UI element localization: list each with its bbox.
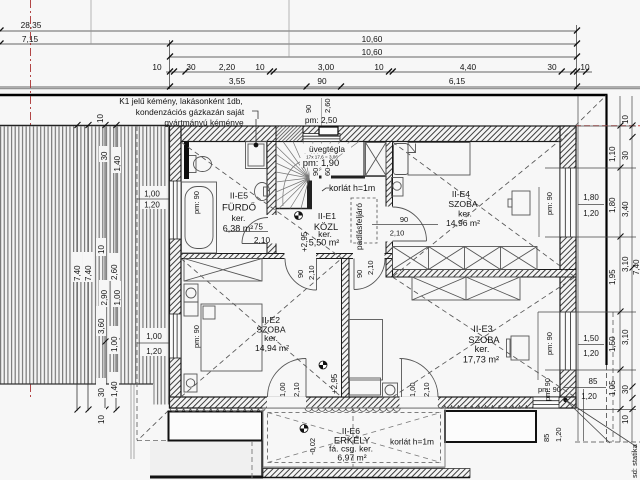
svg-text:1,50: 1,50 [608, 336, 617, 352]
svg-text:90: 90 [296, 270, 305, 278]
svg-text:3,40: 3,40 [621, 201, 630, 217]
svg-text:pm: 90: pm: 90 [543, 378, 552, 401]
svg-text:II-E4: II-E4 [452, 189, 470, 199]
svg-text:2,60: 2,60 [110, 264, 119, 280]
svg-text:6,38 m²: 6,38 m² [223, 224, 254, 234]
svg-text:K1 jelű kémény, lakásonként 1d: K1 jelű kémény, lakásonként 1db, [119, 96, 242, 106]
svg-text:3,10: 3,10 [621, 329, 630, 345]
svg-text:6,97 m²: 6,97 m² [337, 453, 366, 463]
svg-text:7,40: 7,40 [632, 259, 640, 275]
svg-text:14,96 m²: 14,96 m² [446, 218, 480, 228]
svg-text:pm: 2,50: pm: 2,50 [305, 115, 338, 125]
svg-text:+2,95: +2,95 [300, 231, 309, 252]
svg-text:10: 10 [374, 62, 384, 72]
svg-text:ker.: ker. [458, 209, 472, 219]
svg-text:2,10: 2,10 [254, 235, 271, 245]
svg-text:II-E2: II-E2 [262, 315, 280, 325]
svg-text:2,10: 2,10 [366, 260, 375, 275]
svg-text:10: 10 [621, 115, 630, 124]
svg-text:10: 10 [152, 62, 162, 72]
svg-text:1,50: 1,50 [583, 334, 599, 343]
svg-text:pm: 90: pm: 90 [192, 325, 201, 348]
svg-text:1,00: 1,00 [144, 190, 160, 199]
svg-text:sd: statika: sd: statika [630, 443, 639, 478]
svg-text:ker.: ker. [264, 333, 278, 343]
svg-text:1,40: 1,40 [110, 381, 119, 397]
svg-text:60: 60 [323, 168, 332, 176]
svg-text:3,60: 3,60 [97, 318, 106, 334]
svg-text:1,00: 1,00 [113, 289, 122, 305]
svg-text:85: 85 [542, 434, 551, 442]
svg-text:10,60: 10,60 [362, 47, 383, 57]
svg-text:10: 10 [96, 114, 105, 123]
svg-text:7,40: 7,40 [84, 265, 93, 281]
svg-text:3,10: 3,10 [621, 256, 630, 272]
svg-text:10: 10 [255, 62, 265, 72]
svg-text:1,20: 1,20 [583, 349, 599, 358]
svg-text:pm: 90: pm: 90 [545, 192, 554, 215]
svg-text:90: 90 [400, 215, 408, 224]
svg-text:2,60: 2,60 [323, 98, 332, 113]
svg-text:6,15: 6,15 [449, 76, 466, 86]
svg-text:1,00: 1,00 [278, 382, 287, 397]
svg-text:10,60: 10,60 [362, 34, 383, 44]
svg-text:II-E5: II-E5 [230, 191, 248, 201]
svg-text:padlásfeljáró: padlásfeljáró [354, 203, 364, 250]
svg-text:2,10: 2,10 [422, 382, 431, 397]
svg-text:FÜRDŐ: FÜRDŐ [222, 203, 256, 214]
svg-text:30: 30 [100, 151, 109, 160]
svg-text:30: 30 [621, 385, 630, 394]
svg-text:1,00: 1,00 [146, 332, 162, 341]
svg-text:10: 10 [621, 415, 630, 424]
svg-text:1,00: 1,00 [408, 382, 417, 397]
svg-text:1,20: 1,20 [554, 427, 563, 442]
svg-text:90: 90 [311, 168, 320, 176]
svg-text:pm: 1,90: pm: 1,90 [303, 157, 339, 168]
svg-text:17,73 m²: 17,73 m² [463, 355, 499, 365]
svg-text:90: 90 [355, 270, 364, 278]
svg-text:1,80: 1,80 [608, 197, 617, 213]
svg-text:28,35: 28,35 [21, 20, 42, 30]
svg-text:2,90: 2,90 [100, 289, 109, 305]
svg-text:90: 90 [304, 105, 313, 113]
svg-text:1,80: 1,80 [583, 193, 599, 202]
svg-text:1,40: 1,40 [113, 155, 122, 171]
svg-text:1,20: 1,20 [144, 201, 160, 210]
svg-text:90: 90 [317, 76, 327, 86]
svg-text:1,05: 1,05 [608, 380, 617, 396]
svg-text:75: 75 [254, 223, 263, 232]
svg-text:1,20: 1,20 [146, 347, 162, 356]
svg-text:2,10: 2,10 [307, 265, 316, 280]
svg-text:kondenzációs gázkazán saját: kondenzációs gázkazán saját [136, 107, 245, 117]
svg-text:II-E3: II-E3 [473, 324, 492, 334]
svg-text:2,10: 2,10 [292, 382, 301, 397]
svg-text:10: 10 [580, 62, 590, 72]
svg-text:korlát h=1m: korlát h=1m [390, 437, 434, 447]
svg-text:30: 30 [186, 62, 196, 72]
svg-text:30: 30 [547, 62, 557, 72]
svg-text:+2,95: +2,95 [330, 373, 339, 394]
svg-text:30: 30 [621, 151, 630, 160]
svg-text:10: 10 [97, 415, 106, 424]
svg-text:5,50 m²: 5,50 m² [309, 238, 340, 248]
svg-text:1,20: 1,20 [583, 209, 599, 218]
svg-text:85: 85 [589, 377, 598, 386]
svg-text:pm: 90: pm: 90 [545, 332, 554, 355]
svg-text:1,95: 1,95 [608, 269, 617, 285]
svg-text:14,94 m²: 14,94 m² [255, 343, 289, 353]
svg-text:7,40: 7,40 [73, 265, 82, 281]
svg-text:gyártmányú kéménye: gyártmányú kéménye [164, 118, 244, 128]
svg-text:-0,02: -0,02 [308, 438, 317, 455]
svg-text:SZOBA: SZOBA [448, 199, 477, 209]
svg-text:2,10: 2,10 [390, 229, 405, 238]
svg-text:30: 30 [97, 388, 106, 397]
svg-text:1,20: 1,20 [581, 392, 597, 401]
svg-text:II-E1: II-E1 [318, 211, 336, 221]
svg-text:2,20: 2,20 [219, 62, 236, 72]
svg-text:3,00: 3,00 [318, 62, 335, 72]
svg-text:ker.: ker. [475, 344, 490, 354]
svg-text:10: 10 [97, 245, 106, 254]
svg-text:1,10: 1,10 [608, 146, 617, 162]
svg-text:korlát h=1m: korlát h=1m [329, 183, 375, 193]
svg-text:pm: 90: pm: 90 [192, 191, 201, 214]
svg-text:1,00: 1,00 [110, 336, 119, 352]
svg-text:3,55: 3,55 [229, 76, 246, 86]
svg-text:4,40: 4,40 [460, 62, 477, 72]
svg-text:ker.: ker. [232, 213, 246, 223]
svg-text:üvegtégla: üvegtégla [309, 144, 345, 154]
